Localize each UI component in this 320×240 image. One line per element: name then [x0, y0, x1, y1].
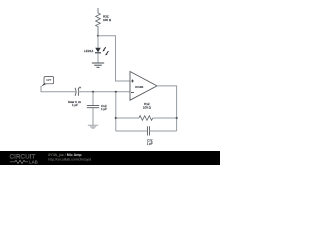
capacitor C1Z: [87, 106, 99, 108]
CircuitLab logo: [10, 153, 38, 164]
wire XPT to input line: [41, 86, 75, 92]
wire cap to op-amp - input: [78, 91, 130, 93]
wire feedback left rail: [115, 92, 117, 131]
LED LED1Z: [95, 47, 108, 55]
resistor R1Z: [139, 116, 153, 121]
wire junction to LED: [97, 36, 99, 48]
resistor R3Z: [96, 8, 101, 36]
wire C7Z row right: [149, 130, 176, 132]
node junction right rail / R1Z: [176, 117, 178, 119]
wire down to C1Z: [92, 92, 94, 105]
capacitor C7Z: [147, 126, 149, 135]
svg-text:1 µF: 1 µF: [72, 103, 78, 107]
LED arrows: [104, 47, 106, 50]
svg-text:1 µF: 1 µF: [147, 142, 153, 146]
wire op-amp output: [157, 86, 177, 131]
capacitor New C xx (polarized): [75, 88, 78, 96]
svg-text:100 Ω: 100 Ω: [103, 18, 112, 22]
svg-text:LED1Z: LED1Z: [84, 49, 94, 53]
footer bar: [0, 151, 220, 165]
svg-text:XPT: XPT: [46, 79, 52, 82]
wire branch from junction to op-amp + input: [98, 36, 130, 81]
wire R1Z row right: [153, 117, 177, 119]
svg-text:1 µF: 1 µF: [101, 107, 107, 111]
wire LED to ground: [97, 53, 99, 63]
svg-text:LAB: LAB: [29, 160, 38, 165]
wire C7Z row left: [116, 130, 147, 132]
svg-text:IC12B: IC12B: [135, 85, 143, 89]
ground (LED): [92, 63, 104, 67]
op-amp IC12B: [130, 72, 157, 101]
ground (C1Z): [88, 125, 98, 128]
node junction at LED top: [97, 35, 99, 37]
wire C1Z to ground: [92, 108, 94, 125]
svg-text:http://circuitlab.com/c8n2ypd: http://circuitlab.com/c8n2ypd: [48, 157, 91, 161]
node XPT flag: [41, 77, 54, 87]
svg-text:100 Ω: 100 Ω: [143, 105, 152, 109]
node junction C1Z: [92, 91, 94, 93]
wire R1Z row left: [116, 117, 139, 119]
node junction feedback left: [115, 91, 117, 93]
node junction left rail / R1Z: [115, 117, 117, 119]
